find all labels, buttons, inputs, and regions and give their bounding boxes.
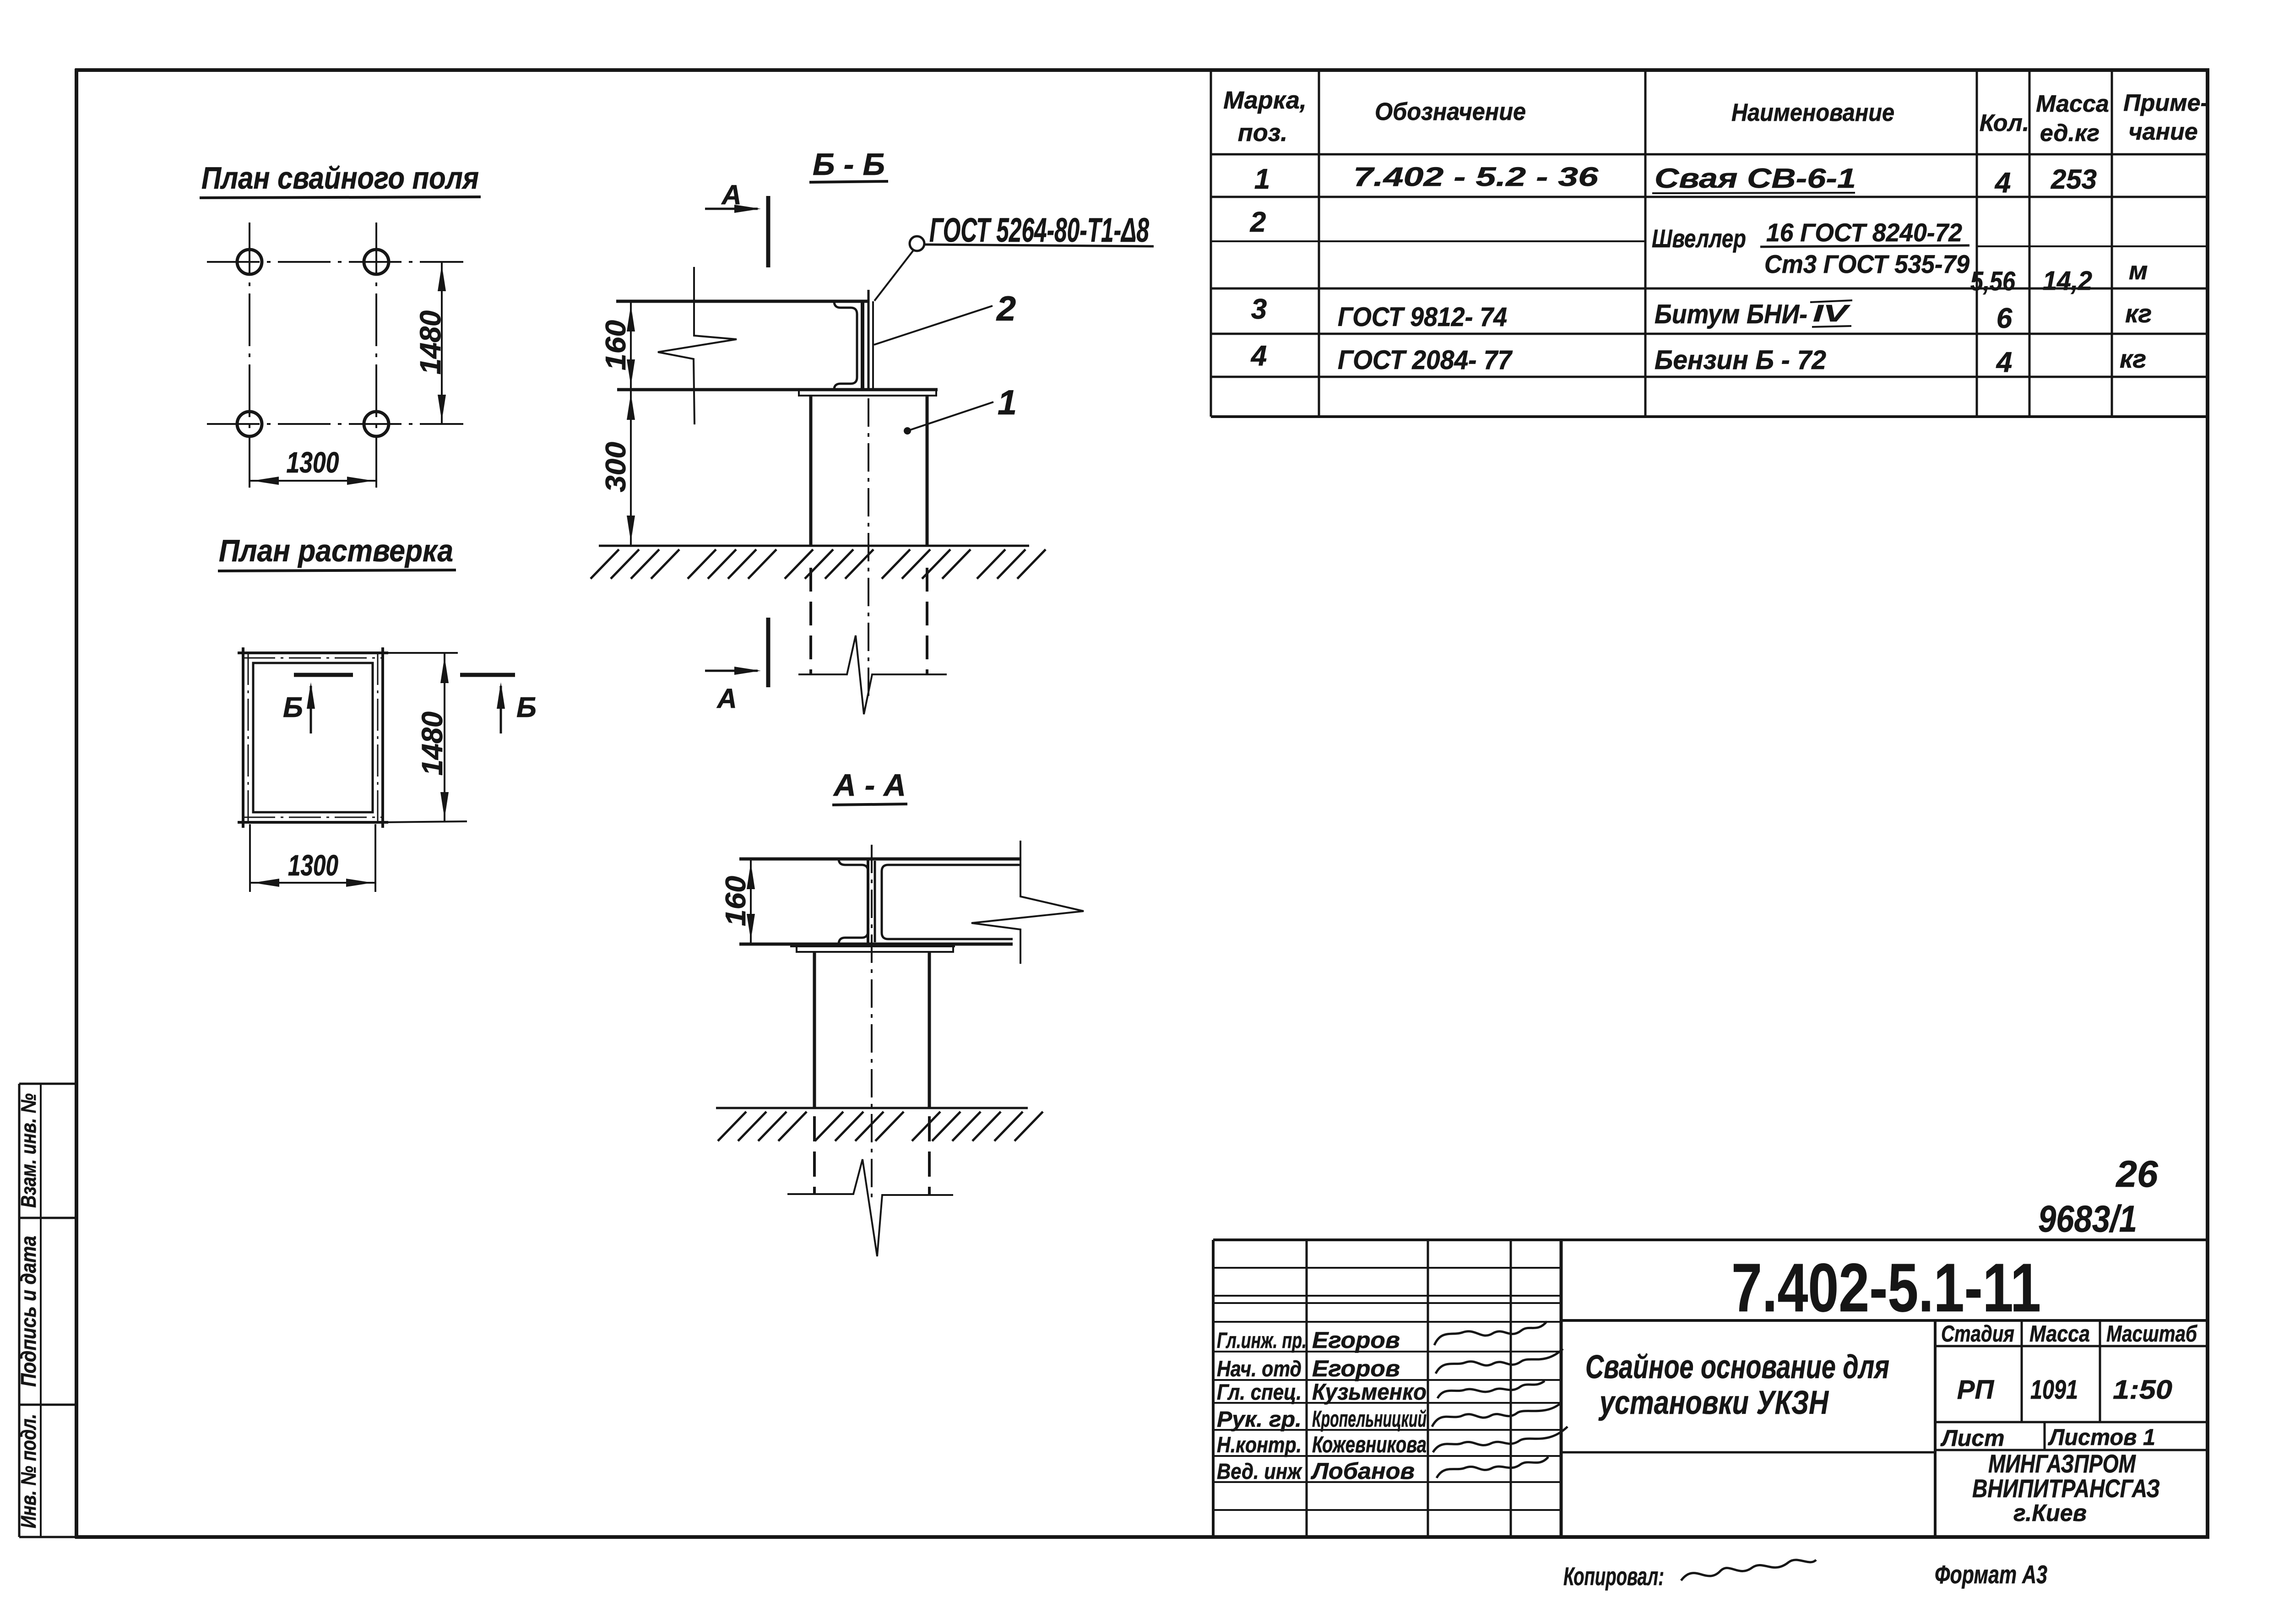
svg-text:чание: чание bbox=[2128, 119, 2197, 145]
pile bottom break Б-Б bbox=[798, 635, 947, 714]
svg-text:9683/1: 9683/1 bbox=[2038, 1198, 2137, 1240]
svg-text:А: А bbox=[716, 683, 737, 714]
svg-text:Масштаб: Масштаб bbox=[2106, 1321, 2198, 1347]
svg-text:г.Киев: г.Киев bbox=[2013, 1500, 2087, 1526]
svg-text:Б - Б: Б - Б bbox=[813, 147, 885, 182]
svg-text:А - А: А - А bbox=[833, 768, 906, 803]
table row 1 naimenovanie Свая СВ-6-1 bbox=[1652, 163, 1856, 194]
title А-А bbox=[832, 768, 907, 805]
section mark А bottom bbox=[705, 618, 768, 714]
parts table grid bbox=[1211, 70, 2208, 417]
title Б-Б bbox=[809, 147, 888, 182]
dimension 1480 grillage bbox=[383, 653, 467, 822]
right channel section А-А bbox=[882, 865, 1020, 939]
svg-text:Свая СВ-6-1: Свая СВ-6-1 bbox=[1655, 163, 1856, 194]
svg-text:Ст3 ГОСТ 535-79: Ст3 ГОСТ 535-79 bbox=[1764, 250, 1969, 278]
signature rows labels and names bbox=[1217, 1327, 1427, 1484]
svg-text:Н.контр.: Н.контр. bbox=[1217, 1433, 1302, 1457]
pile centerline Б-Б bbox=[868, 398, 869, 701]
svg-text:IV: IV bbox=[1813, 300, 1851, 327]
svg-text:Гл.инж. пр.: Гл.инж. пр. bbox=[1217, 1329, 1307, 1353]
signature scribbles bbox=[1432, 1321, 1568, 1478]
svg-text:1091: 1091 bbox=[2030, 1375, 2078, 1405]
left channel section А-А bbox=[839, 859, 875, 944]
pile plan vertical centerline left bbox=[249, 223, 250, 488]
callout leader 2 bbox=[874, 289, 1016, 345]
beam break line Б-Б bbox=[658, 267, 737, 424]
svg-text:поз.: поз. bbox=[1238, 119, 1288, 147]
svg-text:Кол.: Кол. bbox=[1980, 110, 2029, 136]
title План растверка bbox=[218, 533, 456, 571]
svg-text:4: 4 bbox=[1250, 340, 1267, 372]
svg-text:26: 26 bbox=[2115, 1153, 2159, 1195]
section mark Б right bbox=[460, 675, 537, 733]
pile left edge Б-Б bbox=[809, 396, 813, 546]
svg-text:160: 160 bbox=[600, 320, 632, 370]
svg-text:7.402-5.1-11: 7.402-5.1-11 bbox=[1731, 1249, 2041, 1326]
beam top edge Б-Б bbox=[616, 300, 869, 303]
channel section Б-Б bbox=[834, 301, 863, 390]
svg-text:А: А bbox=[721, 179, 741, 210]
callout leader 1 bbox=[904, 383, 1017, 435]
org name МИНГАЗПРОМ bbox=[1972, 1449, 2160, 1526]
ground line А-А bbox=[716, 1107, 1028, 1109]
svg-text:ГОСТ 5264-80-Т1-Δ8: ГОСТ 5264-80-Т1-Δ8 bbox=[929, 211, 1150, 249]
pile plan horizontal centerline bottom bbox=[207, 423, 463, 425]
svg-text:Свайное основание для: Свайное основание для bbox=[1585, 1349, 1889, 1385]
svg-text:2: 2 bbox=[1250, 206, 1266, 238]
pile right edge Б-Б bbox=[926, 396, 929, 546]
title block grid bbox=[1213, 1240, 2208, 1537]
pile centerline А-А bbox=[871, 845, 873, 1202]
svg-text:План растверка: План растверка bbox=[219, 533, 453, 568]
svg-text:1300: 1300 bbox=[287, 446, 339, 479]
svg-text:3: 3 bbox=[1251, 293, 1267, 325]
pile circle bottom-left bbox=[237, 412, 262, 436]
svg-text:Битум БНИ-: Битум БНИ- bbox=[1655, 299, 1807, 329]
weld edge lines Б-Б bbox=[868, 290, 873, 390]
table row 3 Битум БНИ-IV bbox=[1655, 299, 1852, 329]
svg-text:1: 1 bbox=[998, 383, 1017, 422]
section mark А top bbox=[705, 179, 768, 267]
pile left edge А-А bbox=[813, 952, 816, 1108]
table header Примечание bbox=[2123, 90, 2208, 145]
table row 2 fraction bar bbox=[1760, 245, 1969, 247]
pile right edge А-А bbox=[928, 952, 931, 1108]
svg-text:1: 1 bbox=[1254, 163, 1270, 195]
svg-text:Обозначение: Обозначение bbox=[1375, 98, 1526, 125]
beam bottom edge А-А bbox=[739, 943, 1013, 946]
svg-text:Масса: Масса bbox=[2036, 91, 2109, 117]
svg-text:5,56: 5,56 bbox=[1970, 266, 2016, 296]
pile plan vertical centerline right bbox=[375, 223, 377, 488]
pile cap plate А-А bbox=[790, 946, 955, 952]
svg-text:7.402 - 5.2 - 36: 7.402 - 5.2 - 36 bbox=[1353, 162, 1599, 192]
table header Масса ед.кг bbox=[2036, 91, 2109, 147]
beam top edge А-А bbox=[739, 858, 1020, 861]
weld callout ГОСТ 5264-80-Т1-Δ8 bbox=[874, 211, 1154, 301]
svg-text:ВНИПИТРАНСГАЗ: ВНИПИТРАНСГАЗ bbox=[1972, 1474, 2160, 1503]
svg-text:1300: 1300 bbox=[288, 849, 338, 882]
beam bottom edge Б-Б bbox=[617, 388, 797, 391]
svg-text:РП: РП bbox=[1957, 1375, 1995, 1405]
svg-text:Взам. инв. №: Взам. инв. № bbox=[16, 1093, 40, 1208]
svg-text:Масса: Масса bbox=[2029, 1321, 2090, 1347]
pile dashed below ground left Б-Б bbox=[809, 568, 812, 674]
ground hatching А-А bbox=[718, 1112, 1043, 1141]
svg-text:1:50: 1:50 bbox=[2113, 1375, 2172, 1405]
svg-text:16 ГОСТ 8240-72: 16 ГОСТ 8240-72 bbox=[1766, 218, 1962, 247]
drawing name Свайное основание для установки УКЗН bbox=[1585, 1349, 1889, 1421]
svg-text:План свайного поля: План свайного поля bbox=[201, 161, 479, 196]
svg-text:Швеллер: Швеллер bbox=[1652, 224, 1746, 253]
grillage frame outer rect bbox=[238, 647, 388, 828]
svg-text:160: 160 bbox=[720, 876, 752, 926]
svg-text:м: м bbox=[2129, 256, 2148, 285]
section mark Б left bbox=[283, 675, 353, 733]
svg-text:Формат А3: Формат А3 bbox=[1935, 1560, 2047, 1589]
svg-text:Кропельницкий: Кропельницкий bbox=[1312, 1406, 1427, 1432]
svg-text:Марка,: Марка, bbox=[1223, 87, 1307, 114]
ground line Б-Б bbox=[599, 545, 1029, 547]
svg-text:Лобанов: Лобанов bbox=[1311, 1458, 1415, 1484]
svg-text:Инв. № подл.: Инв. № подл. bbox=[16, 1414, 40, 1528]
dimension 1300 pile plan bbox=[250, 446, 376, 485]
svg-text:Наименование: Наименование bbox=[1731, 99, 1894, 126]
dimension 1480 pile plan bbox=[414, 262, 447, 424]
title План свайного поля bbox=[200, 161, 481, 198]
dimension 300 Б-Б bbox=[600, 390, 635, 546]
svg-text:ед.кг: ед.кг bbox=[2040, 120, 2100, 147]
ground hatching Б-Б bbox=[591, 549, 1046, 579]
svg-text:Приме-: Приме- bbox=[2123, 90, 2208, 116]
svg-text:6: 6 bbox=[1996, 303, 2013, 334]
svg-text:2: 2 bbox=[996, 289, 1016, 328]
svg-text:установки УКЗН: установки УКЗН bbox=[1599, 1385, 1829, 1421]
footer Копировал bbox=[1563, 1560, 1816, 1591]
svg-text:Егоров: Егоров bbox=[1312, 1327, 1400, 1353]
svg-text:Бензин Б - 72: Бензин Б - 72 bbox=[1655, 345, 1826, 375]
grillage frame inner rect bbox=[253, 663, 373, 812]
svg-text:253: 253 bbox=[2051, 164, 2097, 195]
svg-text:кг: кг bbox=[2125, 299, 2152, 328]
svg-text:Нач. отд: Нач. отд bbox=[1217, 1357, 1302, 1381]
table header Марка, поз. bbox=[1223, 87, 1307, 147]
pile circle top-right bbox=[364, 250, 389, 274]
svg-text:Рук. гр.: Рук. гр. bbox=[1217, 1407, 1302, 1432]
svg-text:4: 4 bbox=[1994, 167, 2011, 199]
svg-text:300: 300 bbox=[600, 442, 632, 492]
svg-text:Егоров: Егоров bbox=[1312, 1356, 1400, 1381]
svg-text:Стадия: Стадия bbox=[1941, 1321, 2014, 1347]
svg-text:Б: Б bbox=[283, 692, 303, 723]
svg-text:14,2: 14,2 bbox=[2043, 266, 2092, 296]
svg-text:Подпись и дата: Подпись и дата bbox=[16, 1236, 40, 1387]
svg-text:1480: 1480 bbox=[414, 310, 447, 375]
svg-text:ГОСТ 2084- 77: ГОСТ 2084- 77 bbox=[1338, 345, 1513, 375]
dimension 160 А-А bbox=[720, 859, 755, 944]
pile plan horizontal centerline top bbox=[207, 261, 463, 263]
dimension 1300 grillage bbox=[250, 824, 375, 892]
svg-text:ГОСТ 9812- 74: ГОСТ 9812- 74 bbox=[1338, 302, 1507, 332]
beam break right А-А bbox=[971, 841, 1084, 964]
pile circle top-left bbox=[237, 250, 262, 274]
svg-text:Копировал:: Копировал: bbox=[1563, 1562, 1664, 1591]
svg-text:Листов 1: Листов 1 bbox=[2048, 1424, 2155, 1450]
svg-text:Кожевникова: Кожевникова bbox=[1312, 1432, 1427, 1457]
dimension 160 Б-Б bbox=[600, 301, 635, 390]
svg-text:Вед. инж: Вед. инж bbox=[1217, 1460, 1302, 1484]
svg-text:Кузьменко: Кузьменко bbox=[1312, 1379, 1427, 1405]
pile dashed below ground right А-А bbox=[928, 1116, 931, 1195]
pile bottom break А-А bbox=[787, 1159, 953, 1256]
left margin stamp box bbox=[19, 1084, 76, 1537]
pile dashed below ground right Б-Б bbox=[926, 568, 928, 674]
svg-text:кг: кг bbox=[2120, 344, 2146, 373]
svg-text:Б: Б bbox=[516, 692, 537, 723]
svg-text:1480: 1480 bbox=[416, 712, 449, 776]
svg-text:Лист: Лист bbox=[1940, 1425, 2004, 1451]
pile dashed below ground left А-А bbox=[813, 1116, 816, 1194]
grillage frame centerlines bbox=[243, 653, 383, 822]
svg-text:4: 4 bbox=[1996, 347, 2012, 378]
pile circle bottom-right bbox=[364, 412, 389, 436]
svg-text:Гл. спец.: Гл. спец. bbox=[1217, 1380, 1302, 1405]
pile cap plate Б-Б bbox=[793, 390, 938, 396]
